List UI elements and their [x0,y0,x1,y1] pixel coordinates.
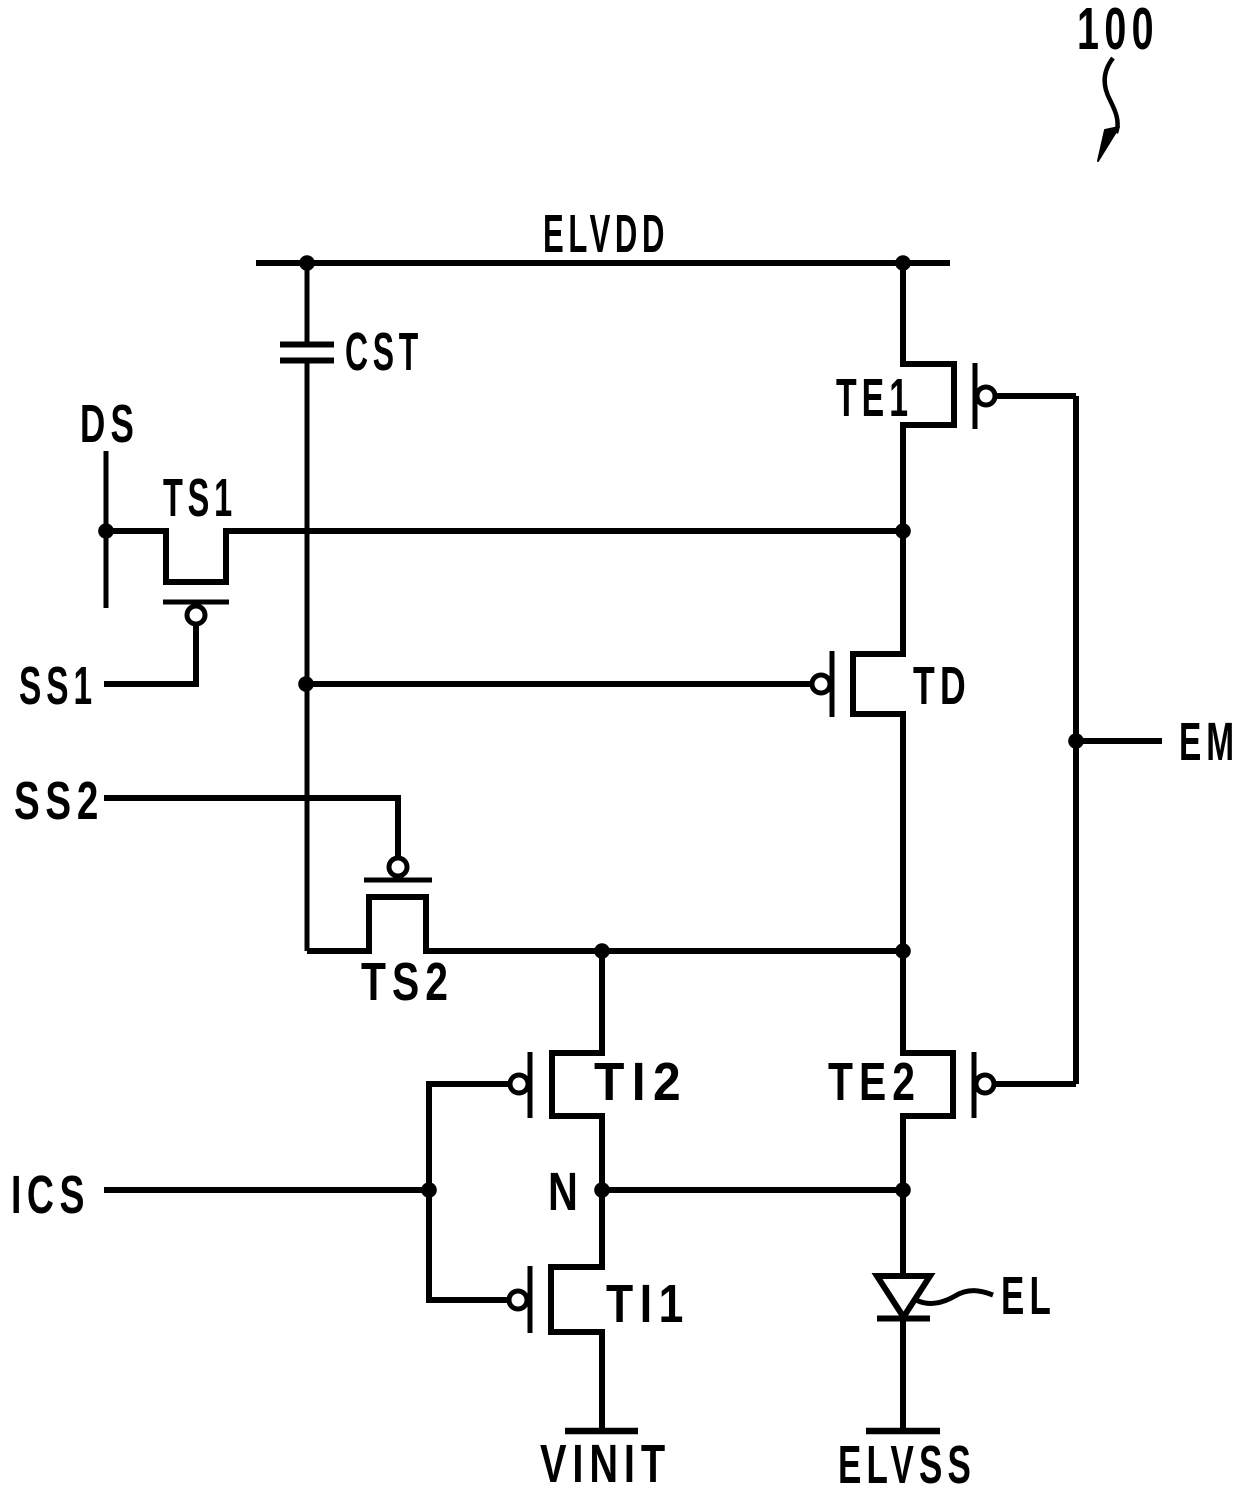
leader arrow for 100 [1098,58,1119,161]
svg-text:100: 100 [1077,0,1159,62]
terminal ELVSS bar [866,1428,940,1435]
transistor TS2 channel and wires [307,897,903,951]
junction TS2 line / TI2 [594,943,610,959]
svg-text:DS: DS [80,394,139,454]
transistor TI2 channel [552,951,602,1190]
svg-text:SS1: SS1 [19,656,97,716]
capacitor CST [280,345,334,361]
wire TS1 gate to SS1 [104,625,196,684]
wire DS vertical [104,451,109,608]
wire EM stub [1076,738,1162,744]
svg-text:SS2: SS2 [14,771,104,831]
transistor TS1 channel and wire to node A [106,531,903,582]
junction node A on TS1 line [895,523,911,539]
junction ELVDD/CST [299,255,315,271]
transistor TE2 gate bubble [976,1075,994,1093]
svg-text:N: N [548,1162,584,1222]
leader squiggle to EL label [916,1291,993,1304]
junction ICS tee [421,1182,437,1198]
svg-text:EM: EM [1179,712,1239,772]
junction DS/TS1 [98,523,114,539]
wire ELVDD rail [256,260,950,266]
wire TI2 gate to ICS [429,1084,508,1190]
wire CST bottom lead down to TS2 line [305,360,310,951]
transistor TS2 gate bubble [389,858,407,876]
transistor TI1 channel [551,1190,602,1428]
wire node N line [602,1187,903,1193]
wire SS2 to TS2 gate [104,798,398,856]
transistor TD gate bar [830,651,835,717]
wire N to EL anode [900,1190,906,1276]
transistor TE1 channel [903,263,954,531]
transistor TI2 gate bar [528,1052,533,1118]
transistor TD gate bubble [812,675,830,693]
svg-text:VINIT: VINIT [540,1434,671,1494]
transistor TS1 gate bar [163,600,229,605]
svg-text:EL: EL [1001,1266,1056,1326]
svg-text:TE1: TE1 [836,368,913,428]
wire TE1 gate to EM line [997,393,1076,399]
wire TD gate line [306,681,811,687]
wire ICS [104,1187,429,1193]
terminal VINIT bar [565,1428,638,1435]
svg-text:TS2: TS2 [361,952,454,1012]
transistor TI1 gate bar [528,1266,533,1333]
transistor TE2 channel [903,951,953,1190]
wire EL cathode to ELVSS [900,1318,906,1428]
transistor TS1 gate bubble [187,606,205,624]
svg-text:ELVSS: ELVSS [838,1435,976,1494]
diode EL cathode bar [877,1316,930,1322]
svg-text:CST: CST [345,322,423,382]
junction EM [1068,733,1084,749]
wire TE2 gate to EM line [996,1081,1076,1087]
svg-text:ELVDD: ELVDD [543,204,669,264]
junction CST line / TD gate [298,676,314,692]
junction N / EL branch [895,1182,911,1198]
svg-text:TI1: TI1 [606,1274,690,1334]
transistor TE1 gate bar [973,363,978,429]
svg-text:ICS: ICS [11,1165,90,1225]
transistor TI2 gate bubble [510,1075,528,1093]
wire ICS to TI1 gate [429,1190,507,1300]
svg-text:TE2: TE2 [828,1052,921,1112]
junction N / TI branch [594,1182,610,1198]
junction ELVDD/TE1 [895,255,911,271]
junction TS2 line / main rail [895,943,911,959]
transistor TE1 gate bubble [977,387,995,405]
transistor TI1 gate bubble [509,1291,527,1309]
svg-text:TI2: TI2 [594,1052,688,1112]
svg-text:TD: TD [913,656,971,716]
transistor TE2 gate bar [972,1052,977,1118]
transistor TS2 gate bar [364,878,432,883]
diode EL triangle [877,1276,930,1317]
transistor TD channel [853,531,903,951]
wire EM vertical [1073,396,1079,1084]
wire CST top lead [305,263,310,343]
svg-text:TS1: TS1 [163,468,237,528]
